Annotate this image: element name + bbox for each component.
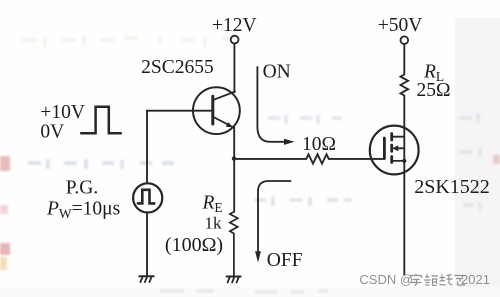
svg-text:P.G.: P.G. xyxy=(66,177,99,198)
svg-text:2021: 2021 xyxy=(461,272,490,287)
svg-text:2SK1522: 2SK1522 xyxy=(414,176,490,198)
svg-text:RE: RE xyxy=(202,193,223,215)
svg-text:25Ω: 25Ω xyxy=(417,80,451,101)
svg-text:CSDN @: CSDN @ xyxy=(359,272,413,287)
svg-text:PW=10μs: PW=10μs xyxy=(46,199,120,221)
svg-text:0V: 0V xyxy=(40,121,64,142)
svg-text:10Ω: 10Ω xyxy=(302,134,336,155)
svg-text:ON: ON xyxy=(263,61,291,82)
svg-text:+10V: +10V xyxy=(40,102,85,123)
svg-text:(100Ω): (100Ω) xyxy=(165,234,223,256)
svg-text:2SC2655: 2SC2655 xyxy=(141,57,214,78)
svg-text:OFF: OFF xyxy=(267,250,303,271)
svg-text:1k: 1k xyxy=(205,213,223,232)
svg-text:+12V: +12V xyxy=(212,15,257,36)
svg-text:+50V: +50V xyxy=(378,15,423,36)
